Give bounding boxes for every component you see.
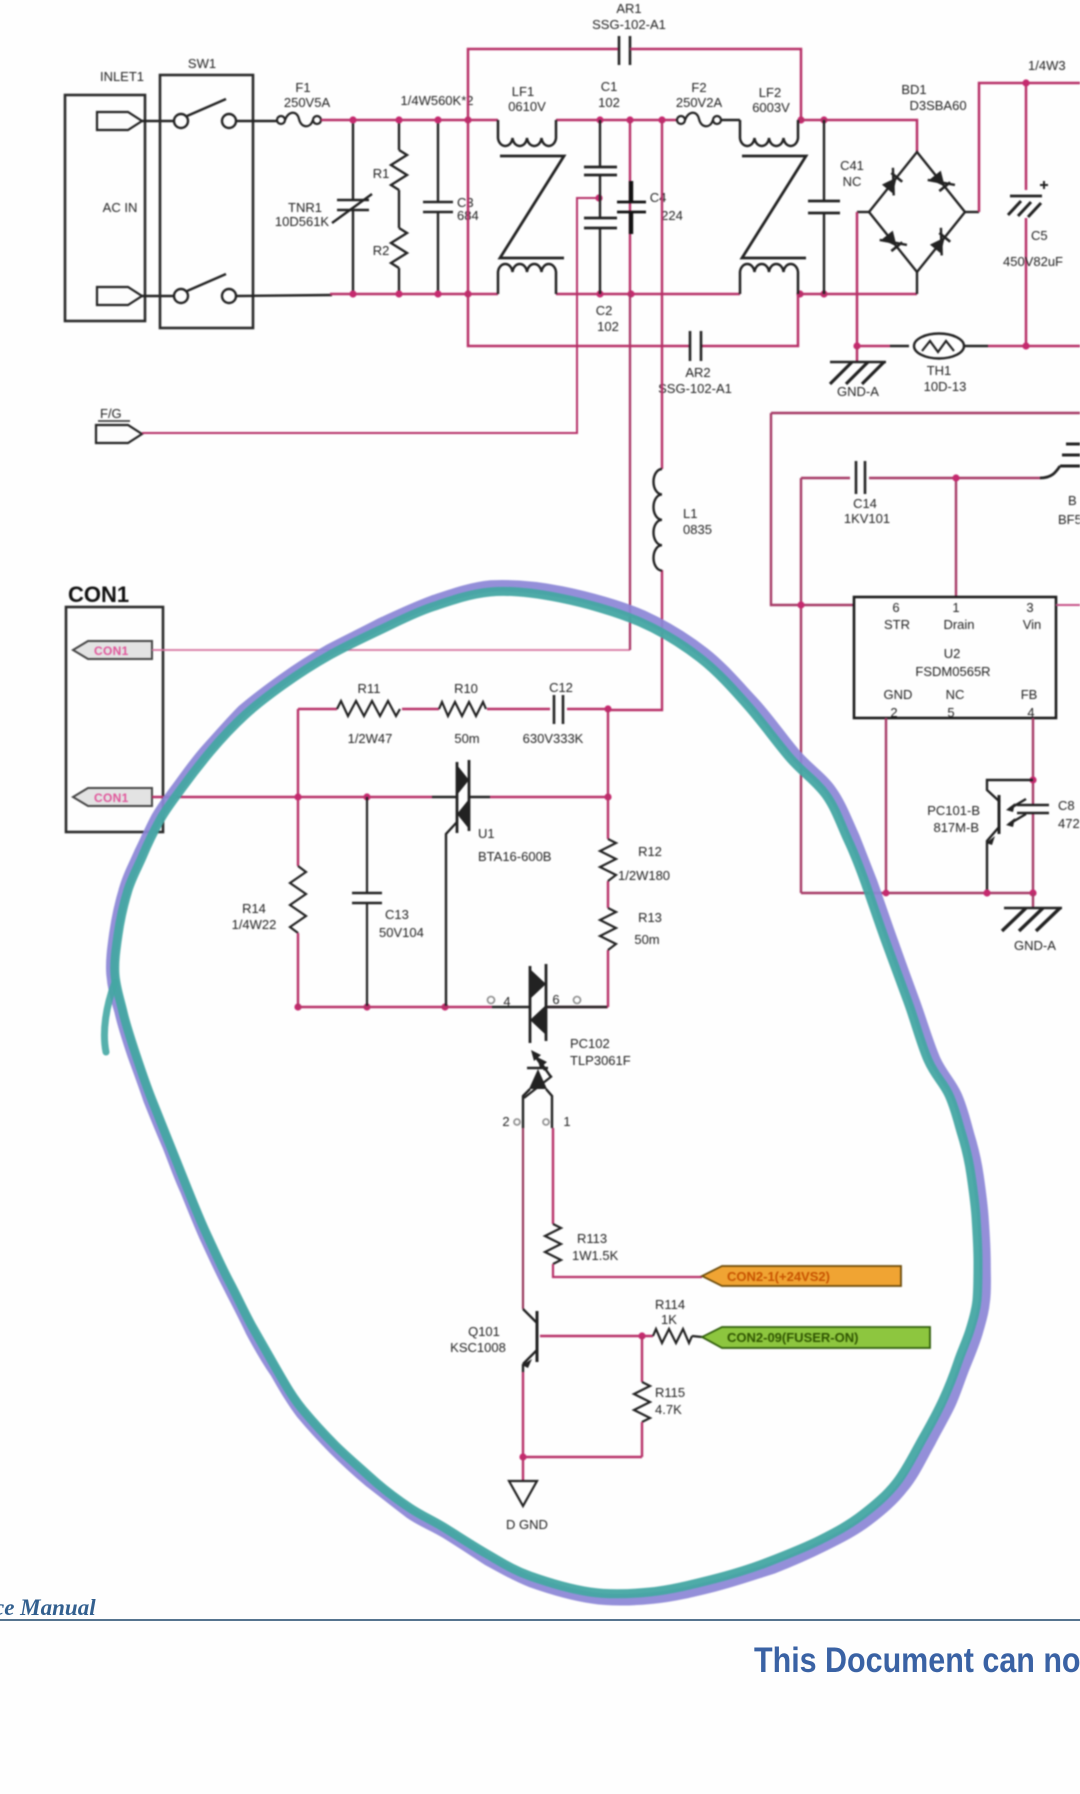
resistor R2 [373,190,407,294]
optocoupler PC101-B phototransistor [927,780,1033,893]
tag CON1 pin2 [73,788,152,806]
capacitor C8 (feedback) [1017,798,1080,831]
resistor R13 [600,908,662,950]
wire F/G to C1/C2 midpoint [142,198,596,433]
tag CON1 pin1 [73,641,152,659]
junction dots bridge area [853,79,1029,349]
capacitor C12 [523,680,584,746]
tag CON2-1 (+24VS2) [702,1266,901,1286]
wire SW1 to F1 [236,120,277,122]
wire C14 to switch transistor [956,477,1040,479]
resistor R114 [653,1297,702,1343]
IC U2 FSDM0565R [854,597,1056,720]
annotation hand-drawn marker circle (inner teal stroke) [115,591,978,1594]
resistor R14 [232,866,306,1007]
junction dots triac loop [294,705,611,1010]
junction dots on AC rails [349,116,827,297]
wire bottom rail to bridge [800,293,917,296]
wire top rail to bridge [800,120,917,152]
arrester AR1 [592,1,666,65]
junction on C1/C2 midpoint [595,194,602,201]
wire Q101 emitter to D GND rail [523,1372,642,1457]
resistor R115 [634,1336,685,1457]
wire triac loop left leg [297,709,299,866]
diode BD1-D1 [880,168,907,196]
capacitor C13 [352,797,424,1007]
diode BD1-D3 [880,229,907,257]
capacitor C4 [617,181,683,234]
wire AR2 branch [468,294,798,346]
resistor R11 [337,681,400,746]
switch SW1 [160,56,253,328]
wire C4 branch vertical [629,120,631,294]
wire R113 to CON2-1 tag [553,1264,702,1277]
opto-triac PC102 output side [488,964,631,1068]
connector CON1 [66,582,163,832]
document footer rule [0,1619,1080,1621]
wire bridge negative to TH1 rail [857,212,890,346]
bridge rectifier BD1 [857,82,979,294]
junction dot base/R115 node [638,1332,645,1339]
junction dot STR node [797,601,804,608]
wire L1 net vertical [608,120,662,710]
wire Q101 base to R114 [540,1335,653,1337]
capacitor C5 [1003,181,1063,269]
opto-triac PC102 LED side [502,1050,570,1129]
thermistor TH1 [890,334,988,395]
wire primary-side ground rail [801,892,1033,894]
wire triac loop top (C12/R10/R11 rail) [298,708,608,710]
watermark text 'This Document can no' [754,1641,1080,1681]
wire bridge positive riser [979,83,1080,212]
varistor TNR1 [275,120,372,294]
ground GND-A (bridge) [830,346,886,399]
wire triac loop right leg [607,709,609,1007]
ground GND-A (U2) [1002,893,1062,953]
capacitor C14 [801,461,956,526]
transistor Q101 [450,1309,537,1372]
capacitor C1 [584,79,620,218]
wire top AC rail (L) [321,119,677,122]
tag CON2-09 (FUSER-ON) [702,1327,930,1348]
connector INLET1 [65,69,145,321]
fuse F2 [676,80,740,126]
resistor R12 [600,839,670,883]
pin INLET1-2 [97,287,142,305]
wire U2 Vin pin to page edge [1056,604,1080,606]
wire CON1 pin2 to triac loop [152,796,608,798]
junction dot drain node [952,474,959,481]
choke LF1 [498,84,564,294]
junction dots ground rail [883,889,1037,896]
wire U2 drain pin riser [955,478,957,597]
wire SW1 to bottom rail [236,295,332,296]
triac U1 BTA16-600B [432,760,551,1007]
resistor R1 [373,120,407,190]
wire AR1 loop [468,49,801,294]
junction dot emitter/ground node [519,1453,526,1460]
wire snubber top rail [771,413,1080,605]
junction dot FB node [1029,776,1036,783]
resistor R113 [545,1224,619,1264]
wire PC102 pin1 to R113 [552,1128,554,1224]
diode BD1-D2 [928,169,955,197]
wire INLET1-1 to SW1 [142,120,174,122]
wire U2 GND pin 2 drop [885,718,887,893]
capacitor C2 [584,218,619,334]
capacitor C41 [808,120,864,294]
tag F/G [96,406,142,443]
transistor BF5 (clipped at page edge) [1040,444,1080,527]
diode BD1-D4 [928,228,955,256]
ground D GND [506,1457,548,1532]
wire U2 FB pin 4 drop [1032,718,1034,893]
wire bottom AC rail (N) [330,293,740,296]
capacitor C3 [423,120,479,294]
wire AC N branch down to CON1 pin1 [629,294,631,650]
wire PC102 pin2 to Q101 collector [522,1128,524,1309]
choke LF2 [740,85,806,294]
wire triac loop bottom [298,1006,608,1008]
wire C5 branch [1025,83,1028,346]
annotation marker stroke tail [104,982,115,1052]
arrester AR2 [658,331,732,396]
footer text 'ce Manual' [0,1595,96,1621]
annotation hand-drawn marker circle (outer purple stroke) [112,586,986,1600]
wire C14 left leg [800,478,802,893]
wire TH1 to C5 rail [988,345,1080,348]
wire INLET1-2 to SW1 [142,295,174,297]
wire CON1 pin1 to AC N branch [152,649,630,651]
resistor R10 [439,681,486,746]
pin INLET1-1 [97,112,142,130]
inductor L1 [654,469,712,571]
fuse F1 [277,80,330,126]
